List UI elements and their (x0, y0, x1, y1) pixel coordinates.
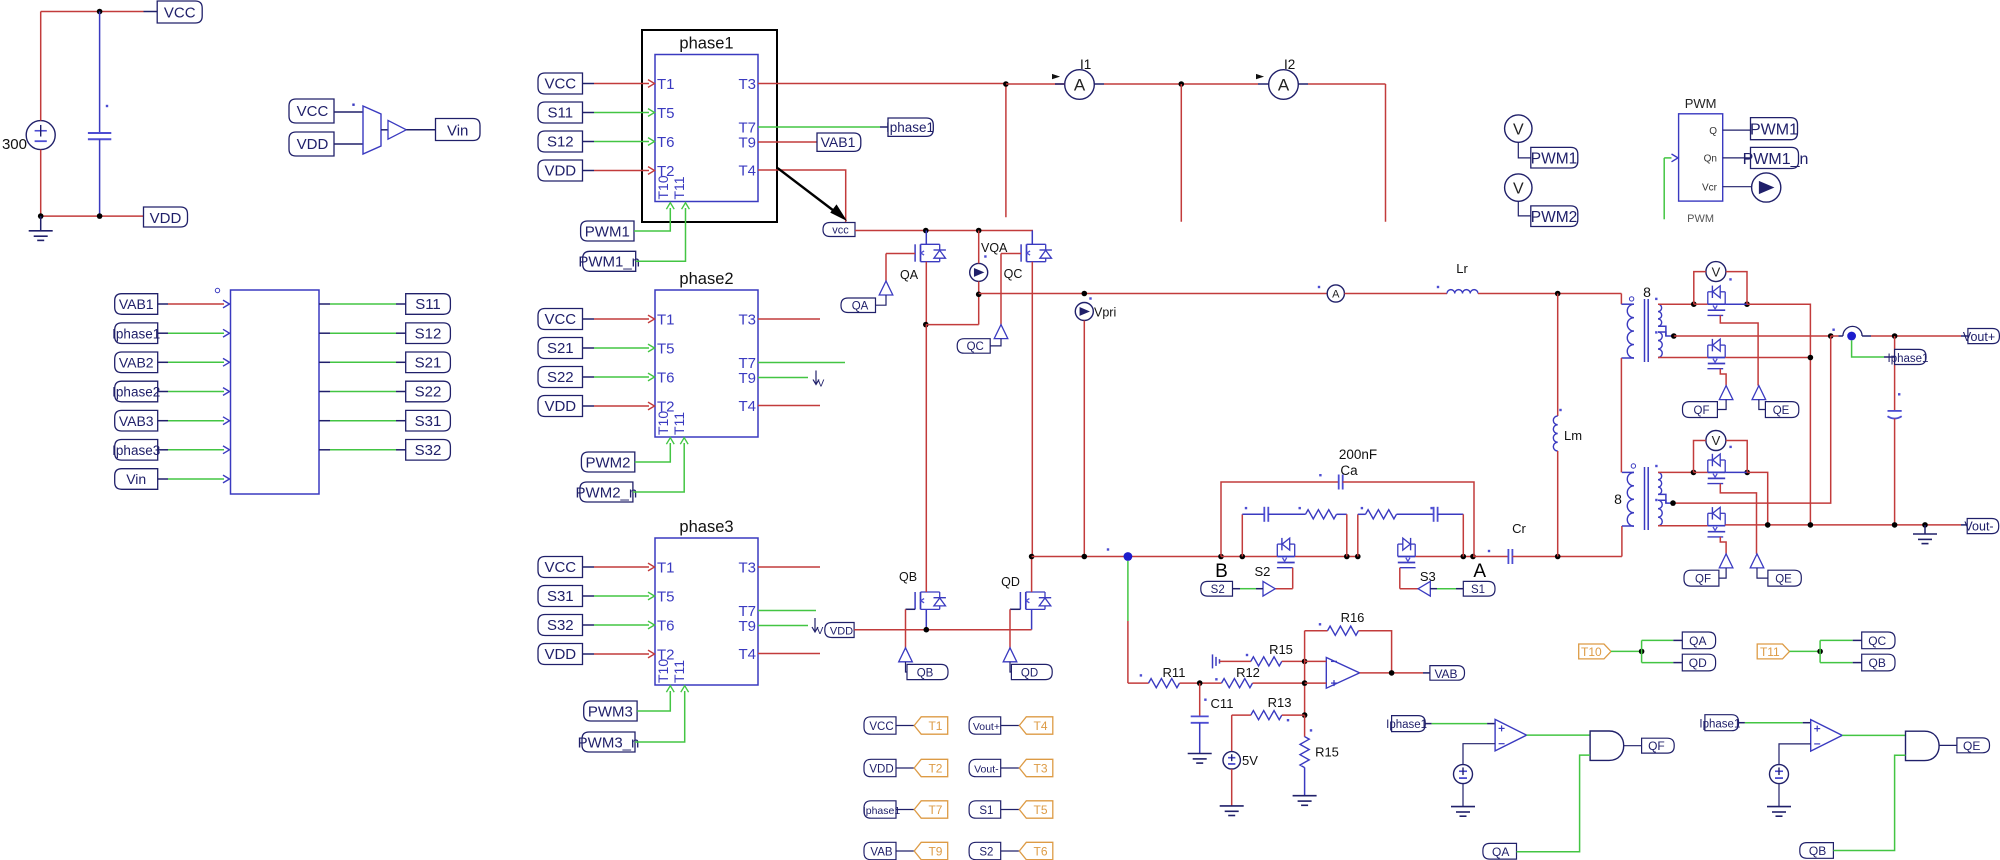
AND1 out wire (1624, 745, 1642, 747)
wire VCC to phase3 (583, 563, 655, 571)
wire S2-T6 (1001, 850, 1020, 852)
svg-text:VAB3: VAB3 (119, 413, 154, 429)
tag S12 (controller output) (406, 323, 451, 344)
svg-text:Qn: Qn (1704, 154, 1717, 165)
node junction M3 left (1691, 470, 1697, 476)
svg-text:T10: T10 (1581, 645, 1602, 659)
svg-text:Iphase1: Iphase1 (1386, 719, 1427, 731)
svg-text:QD: QD (1689, 656, 1707, 670)
svg-text:V: V (818, 379, 825, 390)
svg-text:I2: I2 (1284, 57, 1295, 72)
tag S11 (phase1 input) (538, 102, 583, 123)
wire VCC-T1 (896, 725, 914, 727)
tag Iphase1 (CMP1 input) (1386, 716, 1427, 732)
wire M1 left (1694, 303, 1708, 305)
node junction drop1830 (1828, 333, 1834, 339)
marker Lr (1437, 286, 1439, 288)
tag Iphase1 (output) (1888, 349, 1929, 365)
label Cr (1512, 521, 1526, 536)
capacitor C1 (88, 12, 111, 217)
phase2 title (679, 270, 733, 288)
svg-text:QD: QD (1001, 575, 1020, 589)
wire mid rail (979, 293, 1327, 295)
svg-text:QF: QF (1648, 739, 1665, 753)
node junction mid2 (1355, 554, 1361, 560)
wire phase3 T7 (758, 610, 816, 612)
svg-text:Lm: Lm (1564, 428, 1582, 443)
node junction minus (1302, 659, 1308, 665)
node junction I1 left (1003, 81, 1009, 87)
gate driver QE2 (1750, 554, 1764, 568)
wire vdd rail (854, 629, 1032, 631)
label TR2 ratio 8 (1614, 491, 1622, 507)
marker C1 (106, 105, 108, 107)
tag QE (goto) (1957, 738, 1990, 753)
tag S22 (controller output) (406, 381, 451, 402)
tag S2 (port map) (969, 842, 1001, 859)
wire controller to S21 (319, 361, 406, 363)
wire opamp inputs (1305, 661, 1327, 683)
svg-text:R15: R15 (1315, 745, 1339, 760)
transistor QB (915, 325, 946, 610)
tag Iphase1 (phase1 out) (886, 118, 934, 136)
svg-text:Vout+: Vout+ (1963, 330, 1995, 344)
probe glyph phase3 (812, 618, 824, 637)
tag VDD (phase3 input) (538, 644, 583, 665)
tag QD (drive) (1682, 654, 1715, 671)
wire QE2 tag (1757, 568, 1768, 578)
svg-text:R11: R11 (1163, 665, 1186, 680)
wire RC-left down (1337, 514, 1347, 556)
wire VQA bottom (978, 281, 980, 294)
svg-text:T3: T3 (738, 560, 756, 577)
wire QB gate (906, 609, 916, 648)
wire VAB2 to controller (158, 358, 230, 366)
wire source to CMP2 minus (1779, 744, 1811, 765)
wire Vin to controller (158, 475, 230, 483)
resistor R13 (1251, 711, 1282, 720)
node junction midtap (1671, 333, 1677, 339)
wire R15v top (1304, 715, 1306, 737)
tag Vout- (port map) (969, 759, 1001, 776)
wire Vout+-T4 (1001, 725, 1020, 727)
label Ca (1340, 463, 1358, 478)
wire M3 right drop (1747, 472, 1768, 525)
svg-text:VAB1: VAB1 (821, 134, 856, 150)
marker R15v (1310, 729, 1312, 731)
svg-text:T11: T11 (671, 412, 687, 435)
svg-text:8: 8 (1643, 284, 1651, 300)
svg-text:QF: QF (1694, 405, 1710, 417)
wire M3 gate (1720, 484, 1756, 554)
svg-text:T6: T6 (657, 618, 675, 635)
tag VCC (phase2 input) (538, 309, 583, 330)
wire PWM2_n to T11 (633, 438, 688, 492)
tag VCC (phase1 input) (538, 73, 583, 94)
wire T10 branches (1642, 640, 1683, 662)
svg-text:QC: QC (1868, 634, 1886, 648)
gate driver QE1 (1752, 386, 1766, 400)
node junction vout- 1 (1765, 522, 1771, 528)
wire PWM1 to T10 (634, 203, 674, 231)
wire controller to S22 (319, 391, 406, 393)
wire QF1 tag (1717, 400, 1726, 410)
svg-text:S21: S21 (547, 340, 574, 357)
svg-text:VCC: VCC (544, 559, 576, 576)
wire M1 to drop (1747, 304, 1810, 525)
wire VM1 loop (1694, 272, 1747, 305)
tag QE (rect1) (1765, 402, 1798, 418)
wire Vpri down (1083, 321, 1085, 557)
svg-text:T4: T4 (1034, 719, 1048, 733)
probe Vcr (1752, 173, 1781, 202)
wire node row (1032, 556, 1221, 558)
node junction M3 right (1744, 470, 1750, 476)
ground 5V gnd (1220, 806, 1244, 816)
svg-text:T10: T10 (655, 659, 671, 683)
wire R13 to R15v (1282, 714, 1305, 716)
port tag T1 (914, 717, 948, 734)
tag VCC (top-left) (157, 1, 202, 23)
phase1 outer box (642, 30, 777, 222)
port tag T5 (1019, 801, 1053, 818)
marker A meter (1318, 286, 1320, 288)
tag Iphase1 (controller input) (112, 323, 160, 344)
svg-text:S12: S12 (547, 134, 574, 151)
probe glyph phase2 (813, 371, 825, 390)
wire T10 to node (1611, 650, 1642, 652)
svg-text:5V: 5V (1242, 753, 1258, 768)
tag QF (rect1) (1683, 402, 1718, 418)
transformer TR2 secondary bottom (1658, 500, 1662, 526)
wire TR1 sec bottom (1658, 357, 1708, 359)
svg-text:200nF: 200nF (1339, 447, 1377, 462)
PWM pin labels (1702, 126, 1718, 194)
mux U2 (363, 106, 381, 154)
wire controller to S31 (319, 420, 406, 422)
svg-text:Iphase1: Iphase1 (112, 326, 160, 341)
node junction M1 left (1691, 301, 1697, 307)
ground R15 gnd (1293, 796, 1317, 806)
wire phase1 T9 to VAB1 (758, 141, 817, 143)
wire I1 left stub (1006, 83, 1065, 85)
node junction QA drain (923, 228, 929, 234)
svg-text:T6: T6 (657, 370, 675, 387)
wire T11 branches (1820, 640, 1862, 662)
marker R16 (1319, 623, 1321, 625)
wire TR2 sec bottom (1658, 525, 1708, 527)
svg-text:V: V (1513, 121, 1524, 138)
gate driver QF1 (1719, 386, 1733, 400)
label R16 (1341, 610, 1365, 625)
wire VAB-T9 (896, 850, 914, 852)
marker VM1 (1729, 278, 1731, 280)
svg-text:Vin: Vin (126, 471, 146, 487)
node junction midtap2 (1670, 500, 1676, 506)
label QD (1001, 575, 1020, 589)
svg-text:QE: QE (1773, 405, 1790, 417)
wire buffer to Vin (406, 129, 435, 131)
wire QA source to mid (926, 294, 979, 324)
svg-text:T3: T3 (738, 312, 756, 329)
marker VM2 (1729, 446, 1731, 448)
label QC (1004, 267, 1023, 281)
tag VAB (goto) (1430, 666, 1465, 681)
svg-text:PWM3: PWM3 (588, 703, 633, 720)
wire VQA top (978, 231, 980, 264)
PWM name below (1687, 213, 1714, 225)
node junction QD top (1029, 554, 1035, 560)
resistor R (RC left) (1268, 510, 1336, 519)
marker RC-right cap (1430, 507, 1432, 509)
gate driver QD (1003, 648, 1017, 662)
wire top rail (41, 11, 158, 13)
svg-text:QB: QB (1809, 844, 1826, 858)
svg-text:T9: T9 (738, 135, 756, 152)
svg-text:QA: QA (1492, 845, 1509, 859)
tag PWM3 (584, 701, 637, 721)
svg-text:V: V (1712, 264, 1721, 279)
wire T11 to node (1790, 650, 1821, 652)
svg-text:PWM1: PWM1 (585, 223, 630, 240)
tag VDD (port map) (864, 759, 896, 776)
tag QA (and input) (1483, 843, 1517, 859)
node junction QB source (924, 627, 930, 633)
svg-text:T1: T1 (657, 76, 675, 93)
wire QD source (1031, 609, 1033, 629)
svg-text:T11: T11 (671, 660, 687, 683)
port tag T4 (1019, 717, 1053, 734)
marker R13 (1287, 719, 1289, 721)
wire QC tag to driver (990, 339, 1001, 346)
svg-text:PWM: PWM (1687, 213, 1714, 225)
node dot output (1847, 332, 1856, 341)
wire T3 junction drop 1 (1005, 84, 1007, 217)
wire phase1 T3 (758, 83, 1006, 85)
label B (1215, 561, 1228, 582)
svg-text:Vpri: Vpri (1094, 306, 1116, 320)
svg-text:VDD: VDD (869, 764, 893, 776)
port tag T7 (914, 801, 948, 818)
svg-text:S32: S32 (547, 617, 574, 634)
marker C11 (1204, 699, 1206, 701)
label TR1 ratio 8 (1643, 284, 1651, 300)
voltmeter VQA (970, 241, 1008, 281)
svg-text:phase2: phase2 (679, 270, 733, 288)
tag Iphase1 (CMP2 input) (1699, 715, 1740, 731)
svg-text:Vcr: Vcr (1702, 183, 1718, 194)
wire Vout--T3 (1001, 767, 1020, 769)
wire I1 to I2 (1094, 83, 1268, 85)
svg-text:R15: R15 (1269, 642, 1293, 657)
svg-text:QA: QA (1689, 634, 1706, 648)
tag QC (drive) (1862, 632, 1895, 649)
comparator CMP2 (1811, 720, 1843, 752)
tag VCC (phase3 input) (538, 557, 583, 578)
wire bottom rail (41, 215, 144, 217)
AND gate (CMP1) (1590, 731, 1624, 760)
svg-text:S12: S12 (415, 325, 442, 342)
wire PWM Vcr out (1723, 186, 1752, 188)
wire S2 tag to driver (1233, 588, 1264, 590)
wire tank row S3 to A (1415, 556, 1473, 558)
capacitor Ca (1339, 475, 1343, 490)
wire S21 to phase2 (583, 344, 655, 352)
svg-text:QB: QB (899, 570, 917, 584)
svg-text:VCC: VCC (544, 311, 576, 328)
voltmeter Vpri (1075, 303, 1093, 321)
marker RC-left cap (1245, 507, 1247, 509)
tag VDD (top-left) (144, 207, 188, 227)
svg-text:PWM1: PWM1 (1750, 122, 1798, 139)
wire controller to S11 (319, 303, 406, 305)
node junction B (1218, 554, 1224, 560)
tag S32 (phase3 input) (538, 615, 583, 636)
tag PWM2_n (576, 482, 638, 502)
phase1 title (679, 35, 733, 53)
switch S2 (1277, 538, 1295, 568)
wire RC-left up (1241, 514, 1243, 556)
tag S12 (phase1 input) (538, 131, 583, 152)
tag S1 (port map) (969, 801, 1001, 818)
tag S31 (controller output) (406, 410, 451, 431)
tag QF (rect2) (1684, 570, 1719, 586)
wire VAB3 to controller (158, 417, 230, 425)
wire M3 right stub (1725, 471, 1747, 473)
wire tank row S2 to mid (1295, 556, 1358, 558)
inductor Lr (1447, 290, 1478, 294)
node junction VQA top (976, 228, 982, 234)
voltmeter VM1 (1706, 262, 1726, 282)
gate driver S3 (1418, 581, 1430, 596)
svg-text:Lr: Lr (1456, 261, 1468, 276)
svg-text:C11: C11 (1211, 696, 1234, 711)
transformer TR1 secondary bottom (1658, 332, 1662, 358)
wire TR2 mid tap (1658, 494, 1673, 503)
resistor R (RC right) (1358, 510, 1397, 519)
rectifier MOSFET M2 (1707, 339, 1725, 369)
voltage source V1 300V (26, 121, 55, 150)
svg-text:8: 8 (1614, 491, 1622, 507)
wire opamp out (1360, 672, 1430, 674)
svg-text:300: 300 (2, 136, 27, 153)
tag Vin (controller input) (115, 469, 158, 490)
tag PWM2 (581, 452, 634, 472)
wire phase1 T4 to vcc (758, 170, 846, 223)
phase1 pin labels (655, 76, 756, 200)
wire phase2 T7 (758, 362, 845, 364)
source 5V (1223, 752, 1240, 769)
svg-text:Iphase3: Iphase3 (112, 443, 160, 458)
svg-text:S22: S22 (415, 384, 442, 401)
svg-text:VAB: VAB (870, 847, 892, 859)
node junction R13 (1302, 712, 1308, 718)
tag T11 (from) (1757, 644, 1789, 659)
label S2 switch (1254, 564, 1270, 579)
marker I2 arrow (1257, 75, 1263, 79)
svg-text:T1: T1 (928, 719, 942, 733)
label Vpri (1094, 306, 1116, 320)
node junction I2 left (1179, 81, 1185, 87)
resistor R12 (1222, 679, 1253, 688)
tag VAB3 (controller input) (115, 410, 158, 431)
tag PWM1 (probe) (1531, 147, 1578, 168)
wire TR1 mid tap (1658, 326, 1674, 336)
annotation arrow (778, 168, 846, 220)
wire S31 to phase3 (583, 592, 655, 600)
wire Ca left (1221, 482, 1339, 557)
wire VCC to phase1 (583, 80, 655, 88)
wire junction drop 2 (1180, 84, 1182, 222)
node junction mid1 (1344, 554, 1350, 560)
node junction vout- 2 (1808, 522, 1814, 528)
svg-text:Q: Q (1709, 126, 1717, 137)
buffer U3 (388, 120, 406, 139)
node junction RCR (1461, 554, 1467, 560)
tag PWM2 (probe) (1531, 206, 1578, 227)
wire VP2 to tag (1518, 201, 1531, 216)
tag PWM1_n (578, 251, 640, 271)
ammeter A2 (1327, 285, 1344, 302)
wire S11 to phase1 (583, 109, 655, 117)
node junction QA source (923, 322, 929, 328)
svg-text:T6: T6 (657, 134, 675, 151)
svg-text:T3: T3 (738, 76, 756, 93)
label R15 top (1269, 642, 1293, 657)
transistor QD (1020, 557, 1051, 610)
tag Iphase1 (port map) (863, 801, 901, 818)
marker RC-left res (1299, 507, 1301, 509)
tag vcc (bridge) (823, 223, 855, 237)
svg-text:T5: T5 (657, 589, 675, 606)
wire node drop green (1127, 561, 1129, 621)
phase3 title (679, 518, 733, 536)
transistor QC (1021, 231, 1052, 262)
wire VAB1 to controller (158, 300, 230, 308)
svg-text:VDD: VDD (297, 136, 329, 153)
svg-text:QA: QA (852, 301, 869, 313)
marker mux (352, 104, 354, 106)
wire R13 left (1232, 715, 1251, 752)
svg-text:R16: R16 (1341, 610, 1365, 625)
svg-text:A: A (1278, 76, 1290, 95)
wire drop 3 (1385, 84, 1387, 222)
marker Lm (1559, 409, 1561, 411)
wire QE1 tag (1759, 400, 1766, 410)
svg-text:S3: S3 (1420, 569, 1436, 584)
wire Iphase2 to controller (158, 388, 230, 396)
capacitor C (RC right) (1397, 507, 1464, 522)
marker R15a (1246, 654, 1248, 656)
label R13 (1268, 695, 1292, 710)
wire phase1 T7 to Iphase1 (758, 126, 888, 128)
svg-text:V: V (1513, 180, 1524, 197)
svg-text:Vin: Vin (447, 123, 468, 140)
node junction C11 (1197, 680, 1203, 686)
svg-text:T4: T4 (738, 398, 756, 415)
wire phase3 T9 (758, 625, 808, 627)
svg-text:Vout+: Vout+ (973, 721, 1000, 733)
svg-text:S32: S32 (415, 442, 442, 459)
wire R15v bottom (1304, 768, 1306, 796)
ground-ref R15 (1213, 654, 1220, 668)
svg-text:PWM2_n: PWM2_n (576, 484, 638, 501)
tag QB (and input) (1800, 843, 1834, 859)
wire QB to AND2 (1833, 755, 1905, 850)
wire phase2 T3 (758, 318, 820, 320)
svg-text:T9: T9 (928, 844, 942, 858)
label A (1473, 561, 1486, 582)
